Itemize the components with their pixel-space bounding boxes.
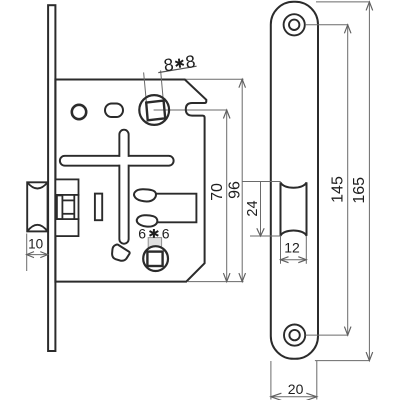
faceplate: [48, 5, 55, 351]
svg-text:10: 10: [28, 236, 43, 251]
dim 96: [241, 79, 243, 281]
follower assembly: [55, 179, 78, 236]
wedge (cam): [112, 244, 130, 260]
egg blob 1: [134, 189, 156, 201]
lock case outline: [55, 80, 206, 282]
oval hole: [105, 104, 123, 118]
dim 70: [226, 110, 228, 282]
dim 24: [243, 181, 281, 183]
extension line top (body top edge, thin): [185, 78, 244, 80]
6*6 gray band: [148, 238, 161, 248]
cross lever: [60, 130, 174, 244]
label 8*8: [162, 51, 196, 75]
svg-text:165: 165: [351, 177, 368, 204]
svg-text:6: 6: [138, 225, 146, 241]
svg-text:20: 20: [288, 381, 304, 397]
svg-text:70: 70: [209, 183, 226, 201]
dim 165: [316, 1, 370, 3]
latch bolt: [27, 182, 47, 231]
screw hole top: [284, 14, 305, 35]
svg-text:6: 6: [162, 225, 170, 241]
plate outline: [271, 2, 318, 359]
latch cutout: [281, 182, 307, 235]
screw hole bottom: [284, 325, 305, 346]
dim 145: [305, 24, 348, 26]
svg-text:12: 12: [284, 240, 300, 256]
spindle hole 8*8 : circle: [139, 95, 169, 125]
egg blob 2: [137, 215, 158, 226]
svg-text:24: 24: [245, 200, 261, 216]
label 6*6: [138, 225, 169, 241]
extension line spindle center: [154, 109, 228, 111]
screw ring: [72, 105, 86, 119]
spindle hole 8*8 : square (rotated): [146, 101, 165, 121]
small slot: [95, 194, 102, 221]
8*8 label underline: [158, 66, 196, 72]
svg-text:145: 145: [330, 176, 347, 203]
dim 20: [270, 361, 272, 400]
8*8 leader band: [144, 72, 147, 102]
extension line bottom (body bottom edge, thin): [188, 281, 244, 283]
dim 12: [280, 236, 282, 264]
svg-text:96: 96: [227, 181, 244, 199]
inner rectangle (open left): [151, 194, 196, 223]
spindle hole 6*6: [143, 246, 168, 271]
